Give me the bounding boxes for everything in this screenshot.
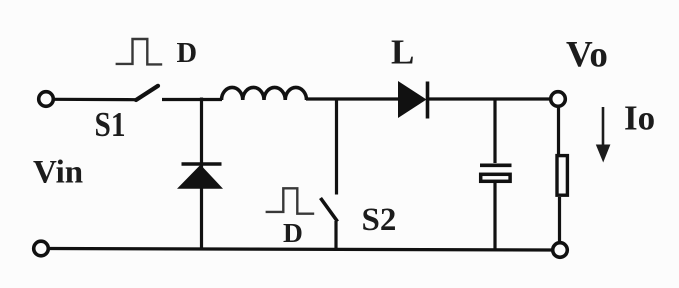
svg-text:Io: Io [624,99,655,138]
svg-text:S2: S2 [362,202,397,238]
terminal Vo- (bottom-right) [553,243,568,258]
bottom rail wire [50,249,553,251]
capacitor C (polarized) [480,165,512,181]
wire S1 to node A [162,98,222,101]
wire node C down to capacitor [493,98,496,164]
wire S2 to bottom rail [334,221,337,250]
inductor (coil, 4 humps) [222,87,307,100]
diode D2 (series, pointing right) [398,81,428,119]
wire T3 down to resistor [557,107,560,155]
svg-text:Vo: Vo [566,35,608,76]
switch S2 blade [321,198,338,222]
wire node A down (diode D1 branch) [200,98,203,251]
wire node B down to S2 [335,98,338,195]
terminal Vo+ (top-right) [551,92,566,107]
diode D1 (shunt, pointing up) [177,164,223,189]
svg-text:L: L [391,33,414,72]
wire inductor to node B to diode D2 [306,97,399,100]
svg-text:Vin: Vin [33,155,83,191]
wire diode D2 to node C to T3 [427,97,551,100]
terminal Vin- (bottom-left) [34,241,49,256]
svg-text:S1: S1 [95,105,126,144]
wire T1 to S1 [55,98,137,102]
pulse waveform symbol (S1 gate drive) [116,39,163,64]
svg-text:D: D [177,38,198,69]
terminal Vin+ (top-left) [39,92,54,107]
wire resistor to T4 [558,197,561,243]
wire capacitor to bottom rail [493,183,496,250]
switch S1 blade [136,86,158,100]
arrow Io (output current) [596,107,611,163]
pulse waveform symbol (S2 gate drive) [266,188,315,213]
resistor R (load) [557,156,567,196]
svg-text:D: D [283,217,303,248]
